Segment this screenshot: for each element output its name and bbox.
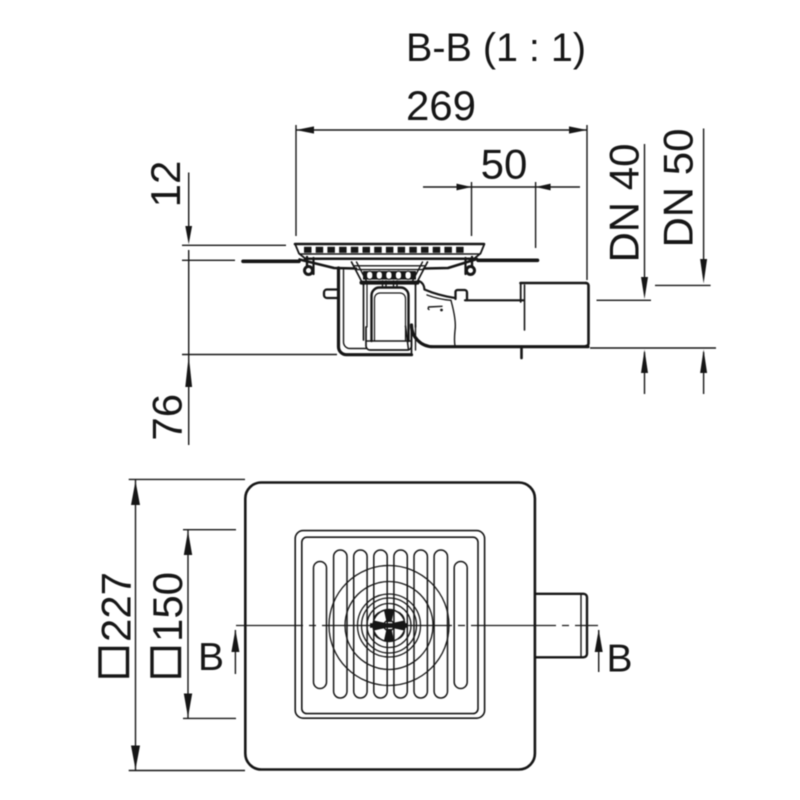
svg-text:B: B: [607, 638, 633, 681]
svg-text:150: 150: [144, 572, 191, 642]
svg-text:76: 76: [144, 394, 191, 441]
svg-text:12: 12: [142, 161, 189, 208]
svg-text:227: 227: [93, 572, 140, 642]
svg-text:269: 269: [406, 82, 476, 129]
svg-text:B: B: [198, 636, 224, 679]
svg-text:50: 50: [481, 141, 528, 188]
svg-text:B-B (1 : 1): B-B (1 : 1): [406, 26, 586, 70]
svg-text:DN 40: DN 40: [601, 143, 648, 262]
svg-text:DN 50: DN 50: [655, 128, 702, 247]
